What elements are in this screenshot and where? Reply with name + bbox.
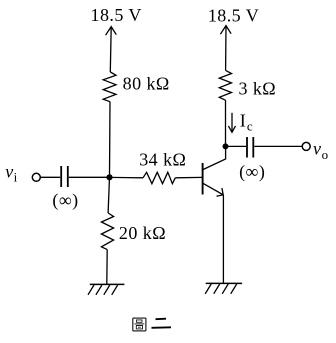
caption 圖 (figure) drawn strokes [133,318,146,331]
wire C1 to base node [69,176,110,178]
svg-text:v: v [5,162,13,182]
caption 二 drawn strokes [152,319,172,328]
resistor R4 3 kΩ [219,70,231,100]
current arrow I_c [231,113,233,131]
transistor Q1 emitter arrowhead [217,188,224,196]
wire R4 to collector node [225,100,227,146]
supply arrow right (VCC) [225,26,227,70]
svg-text:(∞): (∞) [52,190,78,211]
resistor R2 20 kΩ [101,213,113,250]
capacitor C2 (output, ∞) [246,137,248,158]
svg-text:o: o [322,147,329,162]
svg-text:18.5 V: 18.5 V [208,6,259,26]
resistor R1 80 kΩ [103,72,116,102]
wire node to R2 [108,177,109,213]
svg-text:34 kΩ: 34 kΩ [139,150,186,170]
transistor Q1 base bar [202,163,204,195]
wire collector node to C2 [226,145,247,147]
transistor Q1 emitter lead [203,183,223,194]
wire terminal to C1 [40,176,60,178]
wire emitter to ground [222,195,224,284]
transistor Q1 collector lead [203,146,225,169]
supply arrow left (VCC) [109,27,112,72]
svg-text:(∞): (∞) [239,161,265,182]
svg-text:80 kΩ: 80 kΩ [123,74,170,94]
node B (base divider node) [106,174,112,180]
ground (right, emitter) [206,282,242,284]
svg-text:i: i [14,170,18,185]
svg-text:20 kΩ: 20 kΩ [119,223,166,243]
svg-text:I: I [240,111,246,131]
output terminal circle [302,142,310,150]
svg-text:c: c [247,119,253,134]
svg-text:3 kΩ: 3 kΩ [238,79,276,99]
node C (collector node) [223,143,229,149]
wire R2 to ground [106,250,108,285]
wire base node to R3 [110,176,144,178]
capacitor C1 (input, ∞) [60,166,62,187]
svg-text:18.5 V: 18.5 V [91,5,142,25]
resistor R3 34 kΩ [143,172,175,183]
wire R3 to base [175,176,202,178]
wire left rail to base node [109,102,112,178]
svg-text:v: v [313,139,321,159]
input terminal circle [32,173,40,181]
ground (left) [90,283,125,285]
wire C2 to output terminal [254,145,302,147]
